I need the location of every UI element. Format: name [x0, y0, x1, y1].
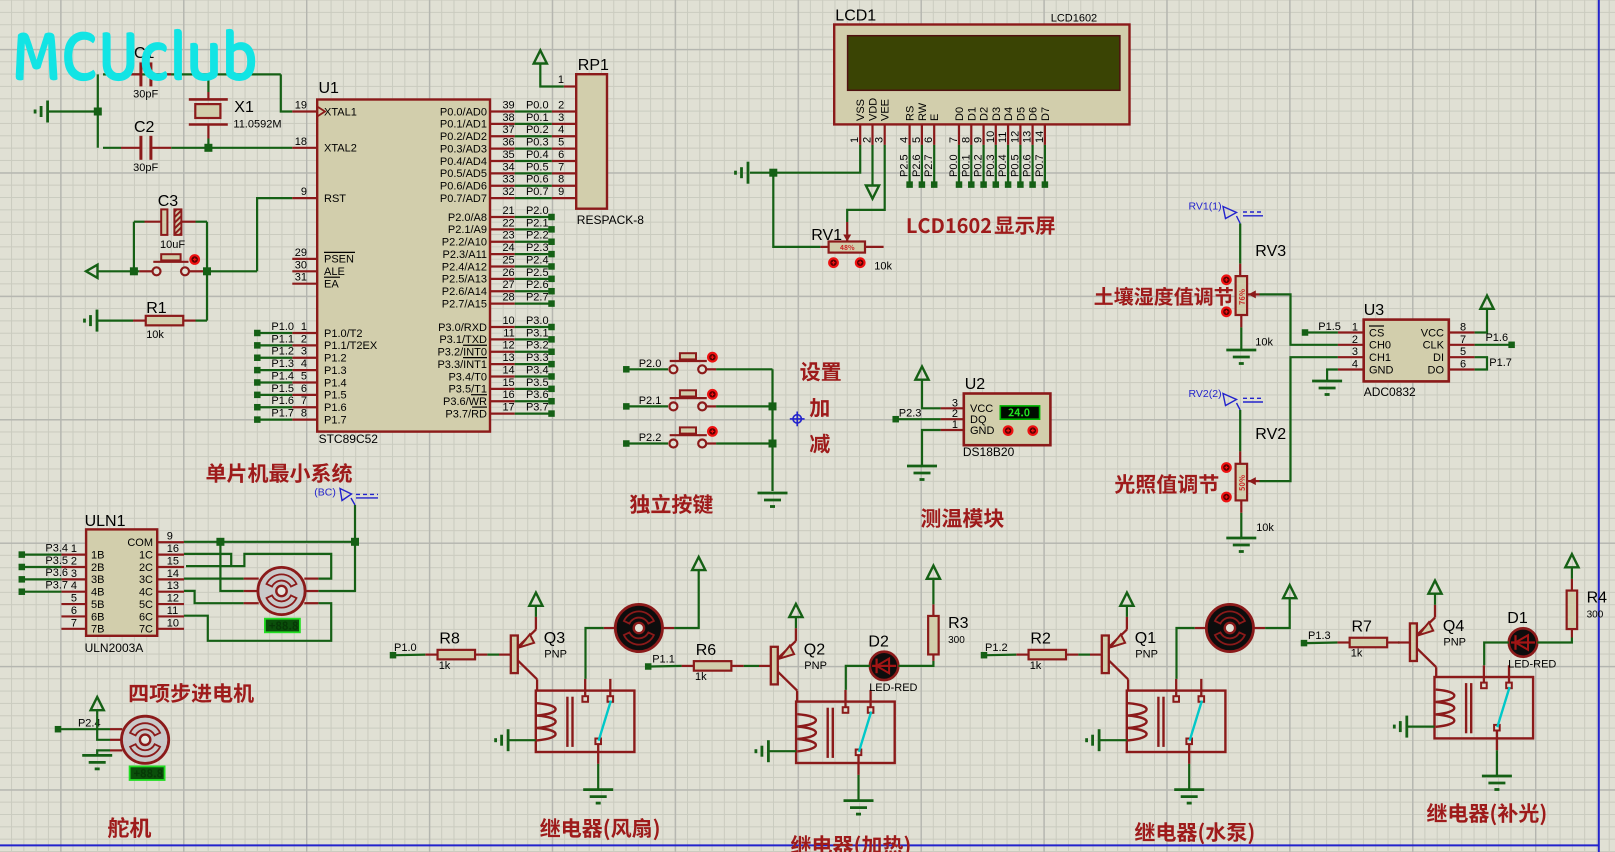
node junction COM 1 — [216, 538, 224, 546]
svg-text:D1: D1 — [966, 107, 978, 121]
svg-text:RESPACK-8: RESPACK-8 — [577, 213, 644, 227]
svg-text:1: 1 — [1352, 322, 1358, 334]
wire R1 left to ground — [97, 320, 133, 322]
wire relay common to ground (pump) — [1188, 764, 1190, 790]
potentiometer RV1 — [811, 222, 883, 253]
power VCC (Q3) — [529, 593, 542, 606]
svg-text:6B: 6B — [91, 611, 104, 623]
svg-text:9: 9 — [167, 531, 173, 543]
wire VEE to RV1 wiper — [847, 145, 885, 222]
svg-text:P1.6: P1.6 — [271, 395, 294, 407]
svg-text:D6: D6 — [1028, 107, 1040, 121]
svg-text:5B: 5B — [91, 599, 104, 611]
svg-text:P0.7: P0.7 — [526, 186, 549, 198]
wire motor to VCC (pump) — [1265, 598, 1290, 628]
wire P1.2 to R2 — [987, 653, 1016, 656]
wire COM up to BC marker — [354, 505, 356, 542]
svg-text:9: 9 — [973, 137, 985, 143]
svg-text:P2.6: P2.6 — [911, 154, 923, 177]
terminal P1.0 — [390, 652, 397, 659]
svg-text:RST: RST — [324, 193, 346, 205]
terminal P2.4 — [55, 726, 62, 733]
svg-text:13: 13 — [502, 352, 514, 364]
servo display +88.8 — [130, 766, 165, 780]
svg-text:P2.4/A12: P2.4/A12 — [442, 261, 487, 273]
resistor pack RP1 (RESPACK-8) — [552, 57, 644, 227]
wire relay common to ground (heater) — [857, 775, 859, 801]
wire left rail x=97.8 — [97, 74, 99, 147]
svg-text:P2.7: P2.7 — [526, 292, 549, 304]
wire key P2.2 to rail — [716, 442, 772, 444]
label relay fan (chinese) — [540, 818, 659, 840]
svg-text:P3.1/TXD: P3.1/TXD — [439, 334, 487, 346]
wire LED cathode to R4 — [1537, 638, 1572, 643]
wire rail x=207 down to R1 — [206, 271, 208, 320]
svg-text:VEE: VEE — [880, 99, 892, 121]
svg-text:P3.2: P3.2 — [526, 340, 549, 352]
svg-text:P0.4: P0.4 — [526, 149, 549, 161]
svg-text:P2.3: P2.3 — [899, 408, 922, 420]
svg-text:D1: D1 — [1507, 610, 1528, 627]
label LCD1602 display (chinese) — [908, 218, 991, 233]
svg-text:R7: R7 — [1352, 619, 1373, 636]
wire bottom rail y=147.8 — [103, 147, 121, 149]
svg-text:3: 3 — [301, 346, 307, 358]
svg-text:P1.4: P1.4 — [271, 370, 294, 382]
svg-text:7: 7 — [71, 617, 77, 629]
wire 6C loop to motor lower-right — [184, 603, 331, 641]
svg-text:VCC: VCC — [1421, 327, 1444, 339]
svg-text:COM: COM — [127, 537, 153, 549]
wire P1.1 to R6 — [651, 665, 681, 668]
svg-text:P3.0: P3.0 — [526, 315, 549, 327]
svg-text:P1.6: P1.6 — [324, 402, 347, 414]
svg-text:X1: X1 — [234, 99, 254, 116]
svg-text:P0.5/AD5: P0.5/AD5 — [440, 168, 487, 180]
svg-text:P0.2: P0.2 — [526, 124, 549, 136]
label jian (chinese) — [810, 434, 830, 454]
svg-text:P1.2: P1.2 — [985, 642, 1008, 654]
svg-text:18: 18 — [295, 136, 307, 148]
svg-text:P2.2: P2.2 — [526, 230, 549, 242]
transistor Q3 base lead — [499, 653, 511, 655]
red adjust circle (reset button) — [190, 255, 199, 264]
svg-text:P1.7: P1.7 — [324, 414, 347, 426]
relay (fan) — [536, 679, 635, 764]
svg-text:CH0: CH0 — [1369, 340, 1391, 352]
red adjust circles (RV2) — [1222, 463, 1231, 472]
svg-text:4C: 4C — [139, 587, 153, 599]
ground (LCD VSS) — [747, 162, 750, 184]
power VCC (U3) — [1480, 296, 1493, 309]
svg-text:P3.3/INT1: P3.3/INT1 — [437, 359, 487, 371]
svg-text:P3.0/RXD: P3.0/RXD — [438, 322, 487, 334]
svg-text:U3: U3 — [1364, 302, 1385, 319]
svg-text:4: 4 — [71, 580, 77, 592]
wire relay common to ground (light) — [1496, 750, 1498, 776]
svg-text:8: 8 — [960, 137, 972, 143]
red adjust circle (key P2.0) — [708, 353, 717, 362]
wire 3C to motor upper-left — [184, 577, 244, 579]
capacitor C1 — [121, 73, 140, 75]
wire LED anode to relay (heater) — [846, 666, 870, 690]
svg-text:27: 27 — [502, 279, 514, 291]
svg-text:1k: 1k — [1030, 660, 1042, 672]
ADC U3 (ADC0832) — [1338, 302, 1475, 399]
wire COM net — [184, 541, 355, 543]
svg-text:1: 1 — [849, 137, 861, 143]
svg-text:7C: 7C — [139, 624, 153, 636]
motor (fan) — [604, 604, 674, 651]
svg-text:P3.5: P3.5 — [45, 555, 68, 567]
push button P2.0 — [623, 353, 716, 373]
svg-text:16: 16 — [502, 389, 514, 401]
svg-text:4: 4 — [899, 137, 911, 143]
label MCU minimum system (chinese) — [207, 463, 352, 483]
svg-text:R3: R3 — [948, 615, 969, 632]
svg-text:14: 14 — [167, 568, 179, 580]
svg-text:P1.0/T2: P1.0/T2 — [324, 328, 363, 340]
svg-text:D2: D2 — [979, 107, 991, 121]
wire COM to motor mid-left — [220, 542, 243, 591]
svg-text:P2.7/A15: P2.7/A15 — [442, 298, 487, 310]
svg-text:6: 6 — [923, 137, 935, 143]
svg-text:26: 26 — [502, 267, 514, 279]
wire crystal to rails — [207, 74, 209, 92]
wire R3 to VCC — [932, 579, 934, 605]
svg-text:7: 7 — [301, 395, 307, 407]
svg-text:38: 38 — [502, 112, 514, 124]
svg-text:P0.0: P0.0 — [526, 100, 549, 112]
svg-text:R8: R8 — [439, 631, 460, 648]
svg-text:P1.0: P1.0 — [394, 642, 417, 654]
power VCC (motor pump) — [1283, 585, 1296, 598]
svg-text:25: 25 — [502, 254, 514, 266]
wire LED anode to relay (light) — [1484, 643, 1509, 666]
power VCC (RP1 pin1) — [534, 50, 547, 63]
svg-text:P0.7: P0.7 — [1034, 154, 1046, 177]
svg-text:13: 13 — [1022, 131, 1034, 143]
resistor R3 (300) — [928, 604, 969, 661]
svg-text:P3.7/RD: P3.7/RD — [445, 408, 487, 420]
svg-text:14: 14 — [502, 364, 514, 376]
motor (pump) — [1195, 604, 1265, 651]
power VCC (Q1) — [1120, 593, 1133, 606]
wire U3 CLK to P1.6 — [1475, 344, 1509, 346]
svg-text:1: 1 — [952, 419, 958, 431]
svg-text:P2.2: P2.2 — [639, 432, 662, 444]
svg-text:P1.1: P1.1 — [271, 333, 294, 345]
ground (servo) — [82, 754, 112, 757]
svg-text:10: 10 — [985, 131, 997, 143]
svg-text:P0.2/AD2: P0.2/AD2 — [440, 131, 487, 143]
wire emitter to VCC (Q2) — [795, 617, 797, 628]
svg-text:VDD: VDD — [868, 98, 880, 121]
svg-text:2B: 2B — [91, 562, 104, 574]
svg-text:28: 28 — [502, 292, 514, 304]
svg-text:5: 5 — [558, 137, 564, 149]
ground (U2) — [907, 465, 937, 468]
svg-text:RV2(2): RV2(2) — [1189, 388, 1222, 400]
svg-text:P1.7: P1.7 — [271, 408, 294, 420]
svg-text:P3.1: P3.1 — [526, 327, 549, 339]
input arrow (reset row) — [86, 265, 98, 278]
svg-text:RW: RW — [917, 102, 929, 121]
svg-text:2C: 2C — [139, 562, 153, 574]
wire GND U2 — [922, 430, 941, 466]
svg-text:5: 5 — [911, 137, 923, 143]
svg-text:P1.5: P1.5 — [271, 383, 294, 395]
svg-text:D2: D2 — [868, 634, 889, 651]
label jia (chinese) — [810, 398, 829, 417]
svg-text:10k: 10k — [874, 260, 892, 272]
P2 port terminals and wires — [515, 205, 555, 307]
svg-text:P0.2: P0.2 — [973, 154, 985, 177]
wire collector to relay coil (Q1) — [1127, 679, 1129, 690]
wire button to RST pin — [203, 270, 257, 272]
svg-text:P1.4: P1.4 — [324, 377, 347, 389]
svg-text:4: 4 — [558, 124, 564, 136]
svg-text:10k: 10k — [1255, 337, 1273, 349]
wire relay common to ground (fan) — [597, 764, 599, 790]
svg-text:E: E — [929, 114, 941, 121]
svg-text:1k: 1k — [1351, 648, 1363, 660]
svg-text:300: 300 — [948, 635, 965, 646]
svg-text:P2.7: P2.7 — [923, 154, 935, 177]
ground (relay fan) — [583, 788, 613, 791]
red adjust circles (RV3) — [1222, 276, 1231, 285]
svg-text:P1.3: P1.3 — [324, 365, 347, 377]
transistor Q4 (PNP) — [1410, 605, 1436, 667]
svg-text:24: 24 — [502, 242, 514, 254]
label cewen mokuai (chinese) — [921, 508, 1004, 528]
label relay pump (chinese) — [1135, 822, 1254, 844]
wire 2C loop to motor upper-right — [186, 554, 331, 579]
potentiometer RV2 — [1236, 426, 1287, 513]
svg-text:P1.3: P1.3 — [1308, 630, 1331, 642]
ground (coil light) — [1405, 716, 1408, 738]
svg-text:LCD1: LCD1 — [835, 8, 876, 25]
svg-text:P0.5: P0.5 — [1009, 154, 1021, 177]
svg-text:RP1: RP1 — [578, 57, 609, 74]
power VCC (motor fan) — [692, 557, 705, 570]
svg-text:XTAL1: XTAL1 — [324, 106, 357, 118]
svg-text:P1.1: P1.1 — [652, 653, 675, 665]
svg-text:7B: 7B — [91, 624, 104, 636]
svg-text:30: 30 — [295, 259, 307, 271]
svg-text:R4: R4 — [1587, 590, 1608, 607]
node junction keys rail 2 — [769, 440, 777, 448]
svg-text:10uF: 10uF — [160, 239, 185, 251]
wire RV3 wiper to U3 CH0 — [1260, 294, 1338, 344]
svg-text:6: 6 — [71, 605, 77, 617]
wire marker to RV3 — [1239, 224, 1241, 264]
wire collector to relay coil (Q3) — [536, 679, 538, 690]
svg-text:P2.1: P2.1 — [639, 395, 662, 407]
svg-text:P2.0/A8: P2.0/A8 — [448, 212, 487, 224]
svg-text:4: 4 — [301, 358, 307, 370]
svg-text:P0.7/AD7: P0.7/AD7 — [440, 193, 487, 205]
node junction right of button — [203, 267, 211, 275]
svg-text:P3.7: P3.7 — [45, 580, 68, 592]
label stepper motor (chinese) — [130, 683, 254, 703]
svg-text:3: 3 — [558, 112, 564, 124]
svg-text:P3.2/INT0: P3.2/INT0 — [437, 347, 487, 359]
wire R4 to VCC — [1571, 567, 1573, 579]
svg-text:LED-RED: LED-RED — [1508, 659, 1556, 671]
svg-text:P1.2: P1.2 — [271, 346, 294, 358]
svg-text:15: 15 — [502, 377, 514, 389]
svg-text:4B: 4B — [91, 587, 104, 599]
svg-text:P2.3: P2.3 — [526, 242, 549, 254]
push button P2.2 — [623, 427, 716, 447]
svg-text:11.0592M: 11.0592M — [233, 118, 281, 130]
svg-text:DI: DI — [1433, 352, 1444, 364]
wire top rail y=74.4 — [103, 73, 281, 75]
svg-text:C2: C2 — [134, 119, 155, 136]
svg-text:P0.6: P0.6 — [526, 174, 549, 186]
node junction VSS rail — [769, 169, 777, 177]
svg-text:PNP: PNP — [804, 660, 827, 672]
svg-text:P2.0: P2.0 — [639, 358, 662, 370]
wire ground rail to RV1 — [773, 173, 820, 247]
svg-text:ULN2003A: ULN2003A — [85, 641, 144, 655]
transistor Q3 (PNP) — [511, 617, 537, 679]
transistor Q4 base lead — [1398, 641, 1410, 643]
svg-text:12: 12 — [1009, 131, 1021, 143]
svg-text:5C: 5C — [139, 599, 153, 611]
wire C3 left leg — [134, 221, 145, 223]
svg-text:R1: R1 — [146, 300, 167, 317]
svg-text:P0.6/AD6: P0.6/AD6 — [440, 181, 487, 193]
wire servo low to ground — [97, 750, 110, 754]
svg-text:Q4: Q4 — [1443, 618, 1464, 635]
svg-text:P0.3: P0.3 — [526, 137, 549, 149]
red adjust circles (RV1) — [829, 258, 838, 267]
svg-text:P3.6: P3.6 — [45, 567, 68, 579]
svg-text:XTAL2: XTAL2 — [324, 143, 357, 155]
label relay heater (chinese) — [791, 835, 910, 852]
wire P1.5 to CS — [1307, 331, 1338, 333]
transistor Q1 (PNP) — [1102, 617, 1128, 679]
ground (relay pump) — [1174, 788, 1204, 791]
wire motor to relay contact (fan) — [586, 628, 604, 679]
svg-text:P3.7: P3.7 — [526, 402, 549, 414]
svg-text:7: 7 — [1460, 334, 1466, 346]
svg-text:3B: 3B — [91, 574, 104, 586]
svg-text:EA: EA — [324, 279, 339, 291]
wire reset row — [98, 270, 140, 272]
svg-text:D5: D5 — [1015, 107, 1027, 121]
svg-text:RV1(1): RV1(1) — [1189, 201, 1222, 213]
svg-text:P0.1/AD1: P0.1/AD1 — [440, 119, 487, 131]
svg-text:P0.0: P0.0 — [948, 154, 960, 177]
svg-text:8: 8 — [301, 408, 307, 420]
svg-text:P0.6: P0.6 — [1022, 154, 1034, 177]
wire emitter to VCC (Q3) — [535, 606, 537, 617]
svg-text:P1.3: P1.3 — [271, 358, 294, 370]
svg-text:LED-RED: LED-RED — [869, 682, 917, 694]
svg-text:P0.1: P0.1 — [960, 154, 972, 177]
svg-text:12: 12 — [502, 340, 514, 352]
blue net marker RV1(1) — [1223, 207, 1263, 224]
temperature sensor U2 (DS18B20) — [941, 376, 1051, 459]
svg-text:R2: R2 — [1030, 631, 1051, 648]
wire P2.3 to DQ — [899, 418, 941, 420]
ground (relay light) — [1482, 775, 1512, 778]
svg-text:1: 1 — [558, 74, 564, 86]
wire collector to relay coil (Q2) — [796, 691, 798, 702]
svg-text:11: 11 — [997, 132, 1009, 143]
svg-text:4: 4 — [1352, 359, 1358, 371]
svg-text:P3.4: P3.4 — [45, 542, 68, 554]
wire motor to VCC (fan) — [674, 570, 699, 628]
wire 1C — [184, 554, 231, 566]
svg-text:8: 8 — [558, 174, 564, 186]
reset button — [161, 254, 180, 260]
transistor Q2 base lead — [759, 665, 771, 667]
wire relay coil to ground (light) — [1407, 725, 1435, 727]
svg-text:P0.3: P0.3 — [985, 154, 997, 177]
LED D2 (LED-RED) — [870, 652, 898, 680]
wire RV2 to ground — [1240, 513, 1242, 538]
svg-text:11: 11 — [167, 605, 178, 617]
wire VCC U2 — [922, 380, 941, 409]
ground (coil fan) — [507, 729, 510, 751]
svg-text:GND: GND — [970, 425, 995, 437]
power VCC (servo) — [91, 697, 104, 710]
svg-text:RV2: RV2 — [1255, 426, 1286, 443]
push button P2.1 — [623, 390, 716, 410]
svg-text:(BC): (BC) — [314, 487, 336, 499]
wire marker to RV2 — [1239, 410, 1241, 451]
ground (RV2) — [1226, 537, 1256, 540]
servo motor — [110, 716, 169, 763]
svg-text:10: 10 — [502, 315, 514, 327]
svg-text:36: 36 — [502, 137, 514, 149]
svg-text:3C: 3C — [139, 574, 153, 586]
svg-text:35: 35 — [502, 149, 514, 161]
svg-text:P2.6: P2.6 — [526, 279, 549, 291]
svg-text:P1.1/T2EX: P1.1/T2EX — [324, 340, 378, 352]
svg-text:P1.6: P1.6 — [1485, 332, 1508, 344]
P3 terminals to ULN inputs — [19, 542, 68, 595]
wire R2 to Q1 — [1078, 653, 1090, 655]
label light adjust (chinese) — [1115, 474, 1219, 494]
svg-text:3: 3 — [874, 137, 886, 143]
svg-text:Q1: Q1 — [1135, 630, 1156, 647]
potentiometer RV3 — [1236, 243, 1287, 327]
svg-text:CS: CS — [1369, 327, 1384, 339]
svg-text:U1: U1 — [319, 80, 340, 97]
svg-text:2: 2 — [1352, 334, 1358, 346]
terminal P1.6 — [1508, 342, 1515, 349]
svg-text:1k: 1k — [695, 671, 707, 683]
node junction COM 2 — [351, 538, 359, 546]
svg-text:GND: GND — [1369, 364, 1394, 376]
svg-text:37: 37 — [502, 124, 514, 136]
svg-text:P3.6: P3.6 — [526, 389, 549, 401]
ground (relay heater) — [844, 799, 874, 802]
svg-text:34: 34 — [502, 161, 514, 173]
svg-text:P3.5/T1: P3.5/T1 — [448, 384, 487, 396]
svg-text:30pF: 30pF — [133, 89, 158, 101]
svg-text:ADC0832: ADC0832 — [1364, 385, 1416, 399]
power VCC (Q2) — [789, 604, 802, 617]
svg-text:VSS: VSS — [855, 99, 867, 121]
driver ULN1 (ULN2003A) — [61, 513, 184, 655]
svg-text:C3: C3 — [158, 193, 179, 210]
